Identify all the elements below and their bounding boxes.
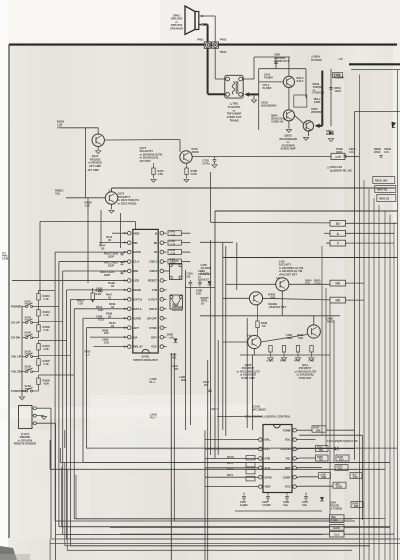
net box CLS — [330, 531, 345, 537]
wire switch CH DN to bus — [38, 322, 40, 325]
svg-text:COMB: COMB — [331, 519, 338, 522]
wire corner x67 y550 — [66, 469, 68, 550]
wire corner x64 y545 — [64, 463, 66, 546]
svg-text:AFT AMP: AFT AMP — [88, 168, 100, 172]
wire Q173 emitter — [111, 204, 113, 209]
ground Q173 — [109, 210, 114, 213]
svg-text:MI: MI — [154, 241, 157, 245]
net box V — [330, 240, 346, 246]
svg-text:PB: PB — [134, 241, 138, 245]
wire IC001 left pin 3 — [205, 448, 256, 450]
wire bus vertical 6 — [73, 309, 75, 519]
IC001 left pin 7 — [259, 485, 263, 489]
svg-text:TONE: TONE — [283, 428, 291, 432]
svg-text:R474: R474 — [227, 473, 233, 477]
svg-text:6.BK: 6.BK — [44, 381, 50, 385]
wire R417 row — [299, 429, 312, 431]
transistor Q418 sync set — [307, 325, 320, 338]
resistor R443 box — [168, 231, 182, 236]
IC001 right pin 4 — [293, 457, 297, 461]
svg-text:3.3u: 3.3u — [302, 503, 307, 507]
svg-text:4.7u: 4.7u — [349, 150, 354, 154]
IC U401 pin 15 right — [160, 335, 164, 339]
wire R444 right — [182, 242, 191, 244]
wire sync rail y315.8 — [200, 315, 340, 317]
wire T601 pin4 thick with arrow — [247, 93, 259, 95]
svg-text:EXT A: EXT A — [134, 307, 143, 311]
wire branch x120 — [120, 213, 122, 248]
wire P601 to T601 primary (thick) — [207, 48, 209, 94]
wire bus vertical 3 — [62, 271, 64, 535]
IC013 pin 1 — [33, 407, 36, 410]
svg-text:VOL: VOL — [55, 191, 61, 195]
svg-text:1B: 1B — [111, 284, 114, 288]
svg-text:R472: R472 — [227, 461, 233, 465]
resistor R264 box — [316, 446, 329, 452]
svg-text:AFT DET: AFT DET — [140, 159, 152, 163]
svg-text:5.1K: 5.1K — [171, 253, 176, 256]
ground below Q604 — [286, 130, 291, 133]
wire RN301 to Q173 base — [66, 197, 105, 199]
IC001 left pin 3 — [259, 447, 263, 451]
wire switch POWER row — [22, 306, 26, 308]
wire uTP to right — [345, 155, 360, 157]
IC U401 pin 11 left — [127, 326, 131, 330]
diode D430 — [320, 497, 324, 501]
wire Q601 collector — [288, 57, 290, 76]
wire audio box outline — [259, 68, 306, 70]
svg-text:1OO: 1OO — [98, 308, 103, 312]
svg-text:1.5K: 1.5K — [158, 172, 163, 176]
svg-text:1B: 1B — [108, 238, 111, 242]
wire IC401 left pin 9 — [74, 308, 127, 310]
svg-text:4.7u/BV: 4.7u/BV — [262, 503, 271, 507]
wire Q604 emitter down — [288, 121, 290, 129]
wire IC401 left pin 5 — [63, 270, 128, 272]
svg-text:2.2K: 2.2K — [44, 347, 49, 351]
IC U401 pin 21 right — [160, 279, 164, 283]
svg-text:1B: 1B — [111, 305, 114, 309]
IC U401 pin 17 right — [160, 316, 164, 320]
speaker terminal bottom — [199, 24, 202, 26]
speaker SPK1 cone — [185, 6, 195, 35]
resistor R265 box — [336, 455, 349, 461]
IC U401 pin 22 right — [160, 269, 164, 273]
ground switch common — [19, 397, 24, 400]
wire right section thin line — [351, 68, 400, 70]
resistor R445 box — [168, 250, 182, 255]
svg-text:24OK: 24OK — [314, 100, 321, 104]
wire pair vertical x225.8 — [225, 246, 227, 436]
IC001 left pin 5 — [259, 466, 263, 470]
svg-text:T54: T54 — [319, 458, 324, 461]
IC U401 pin 26 right — [160, 231, 164, 235]
wire switch FUNCTION row — [22, 390, 26, 392]
wire IC401 left pin 13 — [94, 346, 128, 348]
wire corner x64 y448 — [64, 430, 66, 448]
wire speaker top to P602 — [203, 15, 215, 17]
wire C601 node vertical — [275, 57, 277, 69]
IC U401 pin 20 right — [160, 288, 164, 292]
svg-text:P601: P601 — [197, 37, 204, 41]
wire audio out node to C601 — [254, 56, 290, 58]
ground below Q603 — [303, 138, 308, 141]
IC U401 pin 2 left — [127, 241, 131, 245]
wire T601 pin2 up to audio out node — [243, 78, 255, 80]
switch FUNCTION — [26, 390, 28, 392]
svg-text:C464 T(22)/7N T(22)/T13 16C: C464 T(22)/7N T(22)/T13 16C — [327, 440, 358, 443]
wire Q603 emitter down — [307, 131, 309, 136]
wire RV09 branch down — [84, 128, 86, 198]
wire corner x215 y211 — [215, 210, 397, 212]
IC U401 pin 16 right — [160, 326, 164, 330]
wire bus vertical 4 — [66, 290, 68, 539]
wire nested bus v394 — [393, 222, 395, 560]
capacitor C436 — [208, 389, 211, 391]
svg-text:OSC2: OSC2 — [149, 269, 157, 273]
wire P602 to T601 top — [214, 48, 216, 79]
IC001 right pin 2 — [293, 438, 297, 442]
svg-text:P602: P602 — [220, 37, 227, 41]
IC001 right pin 7 — [293, 485, 297, 489]
svg-text:223: 223 — [204, 383, 209, 387]
net box 5V — [330, 220, 346, 226]
IC U401 pin 7 left — [127, 288, 131, 292]
wire DATA row — [110, 526, 330, 528]
transistor Q415 det — [276, 278, 289, 291]
wire IC401 left pin 4 — [59, 261, 128, 263]
transistor Q402 triangle block — [170, 295, 182, 309]
svg-text:6.2K: 6.2K — [196, 291, 201, 295]
svg-text:2SA1O1B: 2SA1O1B — [172, 309, 183, 312]
wire IC401 left pin 10 — [83, 317, 127, 319]
switch VOL DN — [26, 371, 28, 373]
svg-text:T51: T51 — [338, 468, 343, 471]
svg-text:µPC1BB2C: µPC1BB2C — [252, 408, 266, 412]
wire Q416 base left — [223, 297, 250, 299]
svg-text:1OO1: 1OO1 — [335, 89, 342, 93]
wire horizontal y221.5 left of IC — [40, 221, 136, 223]
resistor R4418 — [37, 310, 40, 317]
resistor sync bottom 2 — [282, 346, 285, 353]
wire nested bus v385 — [384, 211, 386, 560]
resistor R4435 — [37, 359, 40, 366]
capacitor C418a — [121, 252, 124, 254]
transistor Q171 AFT det — [180, 151, 192, 163]
net box PB COMB — [330, 515, 345, 523]
svg-text:4-B: 4-B — [276, 277, 280, 280]
svg-text:6.B: 6.B — [187, 274, 191, 278]
resistor R438 sync — [256, 321, 259, 328]
svg-text:O.7B: O.7B — [191, 172, 197, 176]
resistor R268 box — [319, 473, 331, 479]
wire IC401 left pin 6 — [12, 279, 127, 281]
svg-text:SAO2: SAO2 — [25, 366, 32, 369]
net box HO 1 — [330, 280, 346, 286]
wire vertical x247 — [246, 318, 248, 428]
svg-text:CONT: CONT — [283, 475, 291, 479]
resistor R173 vertical — [186, 163, 188, 168]
IC U401 pin 23 right — [160, 260, 164, 264]
IC001 right pin 5 — [293, 466, 297, 470]
svg-text:36K: 36K — [354, 505, 359, 508]
resistor R600c box — [377, 195, 396, 202]
svg-text:OSC1: OSC1 — [149, 260, 157, 264]
ground left of C618 — [253, 94, 255, 99]
svg-text:TRANS: TRANS — [229, 119, 238, 123]
svg-text:R6OO 18O: R6OO 18O — [375, 179, 387, 183]
svg-text:1(u)BV: 1(u)BV — [240, 503, 248, 507]
net box HO 2 — [330, 297, 346, 303]
capacitor C608 symbol — [380, 155, 383, 157]
svg-text:CH DN: CH DN — [11, 336, 20, 340]
resistor R470 small box — [246, 456, 255, 460]
svg-text:C44B: C44B — [308, 360, 314, 363]
wire IC001 left pin 6 — [205, 476, 256, 478]
resistor R600b box — [375, 186, 396, 193]
svg-text:4.7u: 4.7u — [384, 150, 389, 154]
wire Q603 to rail thick with arrow — [319, 125, 323, 127]
resistor R600a box — [373, 177, 395, 184]
wire vertical x334 — [333, 320, 335, 462]
svg-text:CA26: CA26 — [2, 257, 9, 261]
switch POWER — [26, 306, 28, 308]
connector P601 pin — [205, 43, 209, 47]
svg-text:222: 222 — [174, 367, 179, 371]
wire Q172 base lead — [97, 128, 99, 134]
IC001 top notch — [274, 425, 281, 428]
svg-text:1B: 1B — [101, 246, 104, 250]
net box uTP — [331, 153, 345, 159]
svg-text:5.1K: 5.1K — [44, 362, 49, 366]
wire IC001 left pin 5 — [205, 467, 256, 469]
wire Q172 collector to Q171 — [104, 139, 180, 142]
resistor R4436 — [37, 378, 40, 385]
wire IC401 left pin 12 — [90, 336, 127, 338]
wire branch x101 — [100, 210, 102, 245]
svg-text:7O4: 7O4 — [339, 458, 344, 461]
IC U401 pin 4 left — [127, 260, 131, 264]
resistor R4434 — [37, 344, 40, 351]
transformer T601 pin 3 — [226, 93, 230, 97]
svg-text:SAO1: SAO1 — [25, 300, 32, 303]
wire switch VOL UP row — [22, 356, 26, 358]
wire Q417 base left — [223, 341, 248, 343]
capacitor C433 — [286, 493, 288, 496]
wire V box right — [346, 242, 395, 244]
svg-text:RESET: RESET — [148, 279, 158, 283]
transistor Q172 AFT amp — [92, 134, 104, 146]
wire Q171 out line y156 — [192, 155, 331, 157]
net box A — [330, 230, 346, 236]
svg-text:1B: 1B — [111, 324, 114, 328]
wire IC401 left pin 3 — [55, 251, 127, 253]
svg-text:2P153: 2P153 — [326, 132, 334, 136]
svg-text:1B: 1B — [108, 296, 111, 300]
svg-text:MAIN: MAIN — [134, 288, 141, 292]
wire switch POWER to bus — [38, 291, 40, 294]
wire corner x51 y539 — [51, 538, 400, 540]
wire long bus y188 — [112, 187, 396, 189]
wire PB row — [344, 518, 385, 520]
svg-text:DATA: DATA — [134, 250, 142, 254]
svg-text:1OOK: 1OOK — [336, 486, 343, 489]
resistor R250 box — [335, 465, 348, 471]
svg-text:AFT: AFT — [134, 326, 140, 330]
resistor R444 box — [168, 240, 182, 245]
svg-text:O.47u: O.47u — [203, 161, 211, 165]
IC U401 pin 10 left — [127, 316, 131, 320]
svg-text:x W: x W — [338, 57, 343, 61]
wire switch FUNCTION to bus — [38, 375, 40, 378]
node dots on pin wires — [124, 233, 125, 234]
wire nested bus v390 — [389, 215, 391, 560]
transformer T601 pin 2 — [239, 77, 243, 81]
svg-text:P.S.: P.S. — [286, 457, 291, 461]
svg-text:SAO6: SAO6 — [25, 385, 32, 388]
wire right section thick line — [349, 63, 400, 65]
wire Q601 base — [259, 81, 284, 83]
wire sync bottom rail — [253, 348, 255, 355]
svg-text:5.1K: 5.1K — [171, 243, 176, 246]
wire IC001 left pin 7 — [205, 486, 256, 488]
resistor R243 box — [351, 502, 363, 508]
IC013 remote sensor body — [19, 406, 33, 429]
IC U401 pin 19 right — [160, 298, 164, 302]
svg-text:AUDIO AMP: AUDIO AMP — [280, 147, 295, 151]
wire vertical x190.4 — [189, 287, 191, 426]
wire HO boxes right — [346, 282, 365, 284]
IC U401 pin 12 left — [127, 335, 131, 339]
box around R612 — [294, 95, 307, 107]
svg-text:1B2P: 1B2P — [108, 254, 114, 258]
wire IC401 left pin 1 — [112, 232, 127, 234]
IC U401 bottom notch — [142, 349, 149, 353]
svg-text:5.1K: 5.1K — [44, 313, 49, 317]
resistor R472 small box — [246, 470, 255, 474]
svg-text:4-B: 4-B — [247, 335, 251, 338]
svg-text:EXT B: EXT B — [134, 297, 142, 301]
svg-text:uTP: uTP — [335, 155, 340, 159]
svg-text:SYNC AMP: SYNC AMP — [241, 376, 255, 380]
wire right vertical x397 — [396, 70, 398, 560]
svg-text:1(u)5OWV ML-16C: 1(u)5OWV ML-16C — [330, 169, 352, 173]
svg-text:DATA: DATA — [333, 526, 340, 530]
svg-text:PL-?: PL-? — [150, 415, 156, 419]
svg-text:PL/BB2K: PL/BB2K — [334, 75, 345, 79]
wire corner x76 y518 — [75, 475, 77, 519]
svg-text:VOL UP: VOL UP — [11, 355, 21, 359]
wire vertical x185.6 — [185, 270, 187, 430]
switch CH DN — [26, 337, 28, 339]
svg-text:COLOR: COLOR — [280, 447, 291, 451]
wire corner x61 y526 — [60, 467, 62, 527]
resistor R609 box — [333, 73, 343, 78]
svg-text:1B2P: 1B2P — [104, 273, 110, 277]
svg-text:PL-1: PL-1 — [150, 380, 156, 384]
wire bus vertical 8 — [86, 328, 88, 448]
IC001 right pin 3 — [293, 447, 297, 451]
svg-text:or 2SC1741S,B: or 2SC1741S,B — [118, 201, 137, 205]
capacitor C605 symbol — [344, 155, 347, 157]
wire R446 right — [182, 261, 191, 263]
wire Q415 base left — [226, 283, 276, 285]
IC013 pin 2 — [33, 414, 36, 417]
svg-text:T5K: T5K — [319, 449, 324, 452]
transistor Q417 sync amp — [248, 335, 261, 348]
wire HO2 left — [263, 298, 330, 300]
wire R445 right — [182, 251, 191, 253]
wire main top frame line — [9, 44, 397, 46]
resistor sync bottom 3 — [296, 346, 299, 353]
resistor sync bottom 4 — [310, 346, 313, 353]
wire left frame vertical — [8, 45, 10, 538]
wire Q415 emitter down — [281, 291, 283, 316]
diode D603 — [329, 131, 333, 135]
wire Q417 to Q418 — [261, 335, 307, 343]
IC U401 pin 25 right — [160, 241, 164, 245]
wire IC001 left pin 4 — [205, 457, 256, 459]
wire switch VOL UP to bus — [38, 341, 40, 344]
wire diode row — [299, 448, 334, 450]
transistor Q603 audio amp — [303, 121, 313, 131]
wire bottom y534 — [56, 534, 323, 536]
wire nested bus v374 — [373, 198, 375, 560]
wire right vertical x360 — [359, 75, 361, 560]
wire bus vertical 5 — [69, 299, 71, 546]
IC001 right pin 6 — [293, 475, 297, 479]
wire nested bus v369 — [368, 189, 370, 560]
svg-text:R44B: R44B — [280, 360, 286, 363]
wire Q173 collector up — [111, 188, 113, 192]
wire Q415 collector right — [289, 283, 330, 285]
svg-text:47O: 47O — [98, 289, 103, 293]
svg-text:TBM: TBM — [321, 476, 326, 479]
svg-text:61AZ6.2?: 61AZ6.2? — [198, 278, 209, 282]
wire switch CH UP to bus — [38, 307, 40, 310]
wire IC401 left pin 2 — [99, 242, 127, 244]
svg-text:1B: 1B — [108, 315, 111, 319]
ground Q172 — [96, 151, 101, 154]
svg-text:22B: 22B — [181, 378, 186, 382]
svg-text:5.1K: 5.1K — [44, 297, 49, 301]
IC001 left pin 4 — [259, 457, 263, 461]
svg-text:+PLB DET SET: +PLB DET SET — [279, 272, 298, 276]
transistor Q601 audio out — [283, 76, 294, 87]
wire vertical x218 — [217, 340, 219, 455]
wire switch common vertical — [21, 307, 23, 397]
wire horizontal y257.5 right — [223, 257, 398, 259]
svg-text:BRT: BRT — [285, 466, 291, 470]
wire Q418 top — [313, 316, 315, 325]
wire Q172 emitter — [97, 146, 99, 150]
wire 5V box right — [346, 222, 398, 224]
resistor R4416 — [37, 294, 40, 301]
svg-text:CLK: CLK — [265, 466, 272, 470]
wire speaker bottom to P601 (thick) — [203, 24, 208, 26]
capacitor C432 — [267, 493, 269, 496]
wire RV09 to Q172 — [62, 127, 98, 129]
svg-text:▽BATT: ▽BATT — [199, 296, 209, 300]
capacitor C606 on rail — [329, 87, 333, 89]
resistor R4432 — [37, 325, 40, 332]
svg-text:E2/A COMB/ALL DIGITAL CONTR: E2/A COMB/ALL DIGITAL CONTROL — [245, 415, 291, 419]
capacitor C422 at x200 — [199, 280, 201, 282]
wire IC001 right rows — [299, 439, 316, 441]
IC U401 pin 18 right — [160, 307, 164, 311]
svg-text:CST455: CST455 — [170, 260, 179, 263]
svg-text:CLS: CLS — [334, 533, 340, 537]
